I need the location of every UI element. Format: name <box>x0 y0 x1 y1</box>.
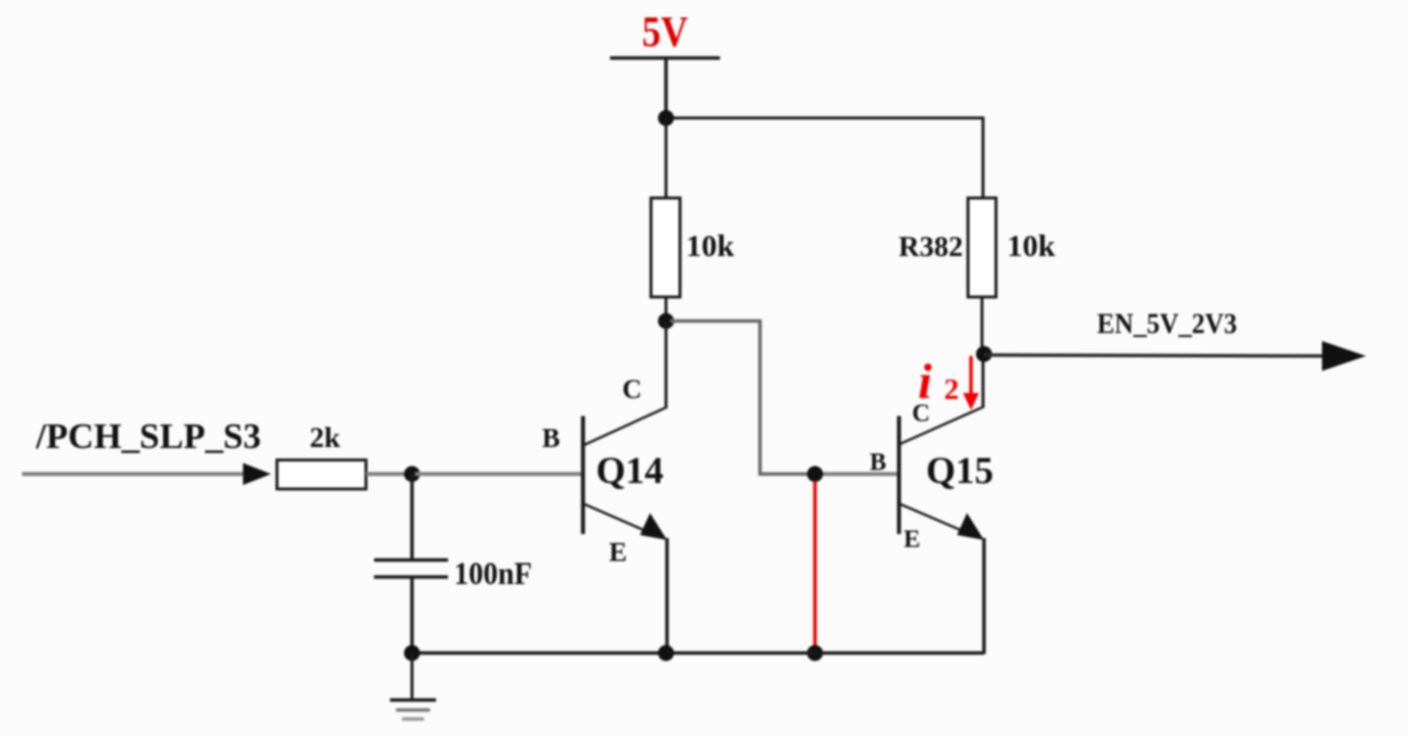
node Q15 base <box>807 466 823 482</box>
wire input /PCH_SLP_S3 <box>22 472 250 476</box>
svg-text:C: C <box>622 374 642 404</box>
node Q14 emitter bottom <box>658 645 674 661</box>
svg-text:Q14: Q14 <box>596 450 664 492</box>
power symbol 5V <box>610 9 720 118</box>
svg-text:R382: R382 <box>899 231 963 263</box>
svg-text:EN_5V_2V3: EN_5V_2V3 <box>1097 308 1237 340</box>
svg-text:2: 2 <box>944 373 959 406</box>
svg-text:100nF: 100nF <box>454 555 532 591</box>
svg-text:i: i <box>918 353 932 409</box>
wire bottom rail <box>412 651 984 655</box>
svg-text:10k: 10k <box>1007 228 1056 263</box>
resistor 2k <box>277 422 366 489</box>
svg-text:5V: 5V <box>642 9 688 56</box>
wire 2k to node <box>366 472 409 476</box>
svg-text:10k: 10k <box>686 228 735 263</box>
node ground <box>404 645 420 661</box>
wire R382 bottom lead <box>981 297 984 354</box>
node collector Q14 <box>658 313 674 329</box>
wire output EN_5V_2V3 <box>984 355 1330 356</box>
wire Q15 base <box>815 472 897 476</box>
resistor R382 10k <box>899 198 1056 297</box>
wire Q14 collector to Q15 base <box>670 321 812 474</box>
node input/cap <box>404 466 420 482</box>
current label i2 <box>918 353 959 409</box>
node output <box>976 346 992 362</box>
wire R1 bottom lead <box>665 297 668 324</box>
wire R1 top lead <box>665 118 668 199</box>
svg-text:E: E <box>609 537 627 567</box>
svg-text:B: B <box>870 449 887 476</box>
wire Q15 emitter vertical <box>982 538 986 654</box>
ground <box>390 653 436 719</box>
input arrowhead <box>243 463 271 485</box>
svg-text:B: B <box>542 423 560 453</box>
wire cap bottom lead <box>410 577 414 653</box>
resistor R1 10k <box>651 198 735 297</box>
wire Q14 collector vertical <box>665 322 668 408</box>
svg-text:/PCH_SLP_S3: /PCH_SLP_S3 <box>35 416 261 456</box>
current arrow i2 <box>963 356 979 410</box>
wire node to Q14 base <box>415 472 581 476</box>
output arrowhead <box>1322 341 1366 371</box>
wire red segment <box>813 481 817 650</box>
node bottom red <box>807 645 823 661</box>
wire Q15 collector vertical <box>982 354 985 408</box>
transistor Q14 <box>542 374 667 567</box>
svg-text:E: E <box>904 526 921 553</box>
svg-text:2k: 2k <box>310 422 342 454</box>
svg-text:Q15: Q15 <box>926 450 994 492</box>
wire cap top lead <box>410 474 414 560</box>
transistor Q15 <box>870 400 994 553</box>
capacitor 100nF <box>374 555 532 591</box>
node junction top <box>658 110 674 126</box>
wire Q14 emitter vertical <box>665 538 669 653</box>
wire top rail <box>666 118 983 199</box>
